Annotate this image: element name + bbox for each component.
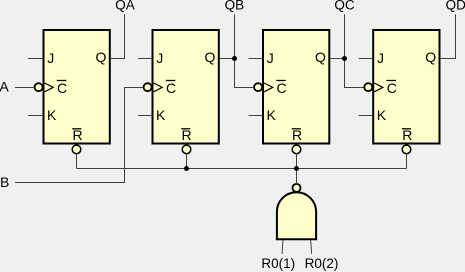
svg-text:QC: QC [334,0,355,12]
junction dot QB node [232,56,237,61]
wire reset bus [77,168,407,170]
U1 C overline [57,80,67,82]
wire U4 reset drop [406,153,408,168]
svg-text:J: J [156,50,163,66]
U2 C overline [166,80,176,82]
svg-text:Q: Q [96,49,107,65]
U1 R overline [72,128,81,130]
U2 clock triangle [154,83,163,92]
wire U3 Q to QC [330,14,345,58]
junction dot QC node [342,56,347,61]
U3 C overline [276,80,286,82]
svg-text:Q: Q [315,49,326,65]
wire U3 K input stub [249,115,264,117]
NAND U5 output bubble [293,184,301,192]
svg-text:R0(2): R0(2) [305,256,339,271]
svg-text:K: K [377,107,387,123]
NAND U5 body [277,192,316,239]
wire U2 J input stub [138,58,153,60]
svg-text:R0(1): R0(1) [261,256,295,271]
wire U1 reset drop [76,153,78,168]
svg-text:C: C [57,80,67,96]
U3 clock bubble [254,83,262,91]
U3 R overline [292,128,301,130]
svg-text:B: B [0,174,9,190]
U3 clock triangle [264,83,273,92]
svg-text:QB: QB [225,0,245,12]
svg-text:K: K [267,107,277,123]
flip-flop U2 body [153,30,219,144]
U2 clock bubble [144,83,152,91]
wire NAND input stub R0(2) [310,240,313,254]
flip-flop U4 body [373,30,439,144]
svg-text:J: J [267,50,274,66]
U4 C overline [387,80,397,82]
U4 R overline [402,128,411,130]
svg-text:A: A [0,79,9,95]
wire input B horizontal [15,88,143,183]
wire U2 K input stub [138,115,153,117]
svg-text:Q: Q [425,49,436,65]
wire U1 J input stub [28,58,44,60]
junction dot reset bus U3/NAND [294,166,299,171]
svg-text:C: C [387,80,397,96]
U2 reset bubble [182,145,191,154]
svg-text:QD: QD [446,0,465,12]
svg-text:C: C [277,80,287,96]
wire input A to U1 clock [15,87,34,89]
wire U1 K input stub [28,115,44,117]
wire U2 Q to QB [219,14,234,58]
U2 R overline [181,128,190,130]
svg-text:J: J [47,50,54,66]
wire NAND input stub R0(1) [281,240,284,254]
wire QB node down to U3 clock [235,59,254,88]
wire U4 K input stub [359,115,374,117]
svg-text:QA: QA [115,0,135,12]
wire U3 J input stub [249,58,264,60]
wire U4 J input stub [359,58,374,60]
svg-text:J: J [377,50,384,66]
wire NAND output riser [296,169,298,185]
U1 clock triangle [45,83,54,92]
svg-text:K: K [156,107,166,123]
junction dot reset bus U2 [184,166,189,171]
U4 clock bubble [364,83,372,91]
flip-flop U1 body [44,30,110,144]
U1 reset bubble [72,145,81,154]
wire U4 Q to QD [440,14,456,58]
U1 clock bubble [35,83,43,91]
U3 reset bubble [292,145,301,154]
U4 reset bubble [402,145,411,154]
svg-text:K: K [47,107,57,123]
wire U1 Q to QA [110,14,124,58]
U4 clock triangle [374,83,383,92]
wire U3 reset drop [296,153,298,168]
wire QC node down to U4 clock [345,59,364,88]
svg-text:C: C [166,80,176,96]
wire U2 reset drop [186,153,188,168]
svg-text:Q: Q [205,49,216,65]
flip-flop U3 body [263,30,329,144]
